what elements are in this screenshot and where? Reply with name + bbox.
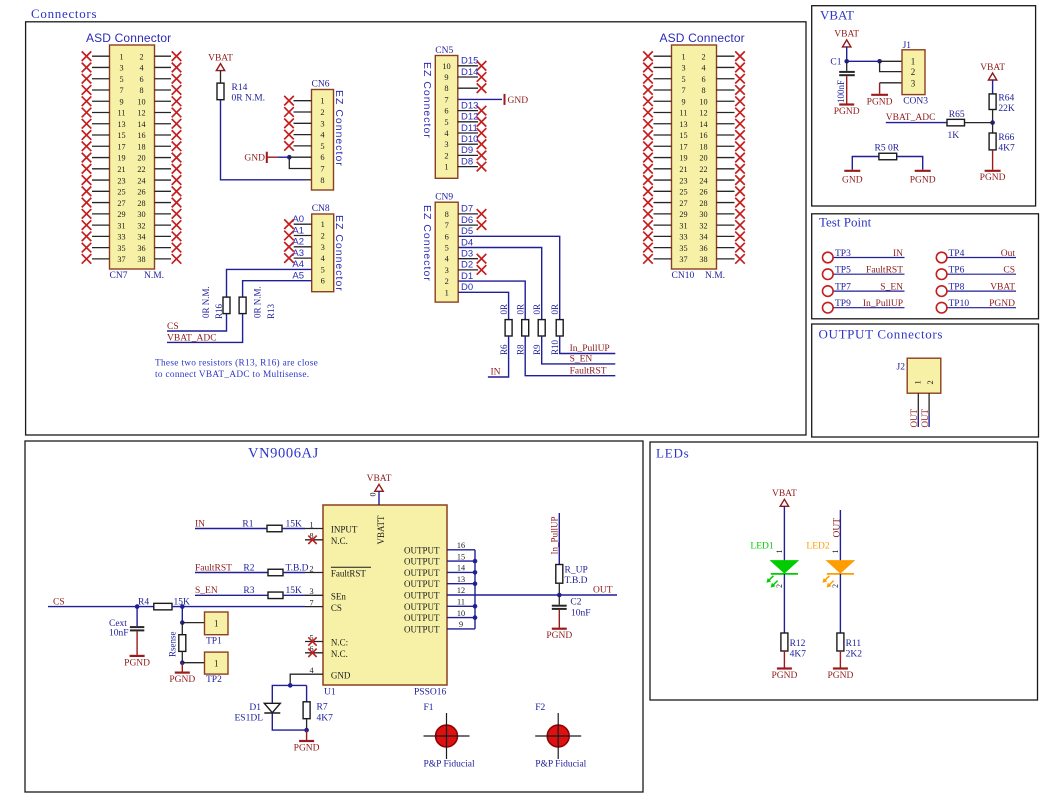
CN7 pin 35 no-connect cross [82, 243, 92, 253]
svg-text:GND: GND [244, 154, 265, 164]
CN10 pin 31 stub [654, 224, 672, 226]
CN10 pin 34 no-connect cross [735, 232, 745, 242]
CN10 pin 30 no-connect cross [735, 209, 745, 219]
CN9 pin 4 stub [458, 258, 478, 260]
svg-text:7: 7 [681, 86, 685, 95]
svg-text:12: 12 [137, 109, 145, 118]
svg-text:EZ Connector: EZ Connector [333, 215, 345, 292]
svg-text:1: 1 [214, 619, 219, 629]
svg-text:1: 1 [309, 520, 313, 529]
CN10 pin 21 no-connect cross [643, 164, 653, 174]
svg-text:PGND: PGND [910, 176, 936, 186]
resistor R64 [989, 94, 996, 110]
CN10 pin 25 no-connect cross [643, 187, 653, 197]
svg-text:1: 1 [775, 550, 784, 554]
svg-text:LED1: LED1 [750, 541, 773, 551]
svg-text:32: 32 [699, 221, 707, 230]
svg-text:1: 1 [911, 56, 916, 66]
svg-text:VBAT: VBAT [208, 53, 233, 63]
U1 pin 6 stub (N.C.) [305, 652, 323, 654]
CN10 pin 24 no-connect cross [735, 175, 745, 185]
CN7 pin 38 stub [155, 258, 172, 260]
svg-text:2: 2 [701, 52, 705, 61]
svg-text:In_PullUP: In_PullUP [570, 344, 610, 354]
svg-text:21: 21 [117, 165, 125, 174]
svg-text:R64: R64 [998, 94, 1014, 104]
U1 pin 7 stub (CS) [305, 606, 323, 608]
CN5 pin 4 no-connect cross [477, 128, 487, 138]
svg-text:PGND: PGND [834, 107, 860, 117]
CN7 pin 26 no-connect cross [172, 187, 182, 197]
CN7 pin 27 no-connect cross [82, 198, 92, 208]
test point TP6 pad circle [936, 269, 947, 280]
wire VBAT to U1 VBATT pin [378, 491, 380, 505]
fiducial F1 mark [436, 725, 458, 747]
svg-text:R3: R3 [243, 586, 254, 596]
svg-text:R_UP: R_UP [565, 566, 588, 576]
test point TP9 pad circle [823, 302, 834, 313]
wire GND node to R7 [290, 684, 306, 686]
wire R16 to CS [167, 314, 227, 331]
svg-text:PGND: PGND [989, 299, 1015, 309]
net stub OUT (LED2) [839, 510, 841, 561]
CN5 pin 9 stub [458, 76, 478, 78]
svg-text:FaultRST: FaultRST [570, 366, 607, 376]
svg-text:D10: D10 [461, 134, 478, 145]
CN10 pin 26 stub [717, 190, 735, 192]
wire FaultRST to R2 [195, 572, 268, 574]
svg-text:33: 33 [117, 233, 125, 242]
CN5 pin 4 stub [458, 132, 478, 134]
svg-text:J2: J2 [897, 363, 906, 373]
CN10 pin 36 stub [717, 247, 735, 249]
svg-text:VBAT_ADC: VBAT_ADC [167, 333, 217, 343]
CN7 pin 5 no-connect cross [82, 74, 92, 84]
CN10 pin 36 no-connect cross [735, 243, 745, 253]
CN10 pin 34 stub [717, 235, 735, 237]
svg-text:D12: D12 [461, 112, 478, 123]
junction at J1 branch [877, 59, 882, 64]
svg-text:R65: R65 [949, 110, 965, 120]
wire GND node to D1 [272, 685, 290, 703]
svg-text:CS: CS [1003, 266, 1015, 276]
CN7 pin 23 stub [92, 179, 110, 181]
CN10 pin 23 no-connect cross [643, 175, 653, 185]
svg-text:11: 11 [680, 109, 688, 118]
svg-text:2: 2 [445, 277, 449, 286]
CN10 pin 27 stub [654, 202, 672, 204]
U1 pin 1 stub (INPUT) [305, 528, 323, 530]
svg-text:IN: IN [893, 249, 903, 259]
svg-text:10: 10 [442, 62, 450, 71]
diode D1 [264, 703, 280, 712]
svg-text:D13: D13 [461, 100, 478, 111]
junction on OUTPUT bus [473, 615, 478, 620]
svg-text:14: 14 [699, 120, 707, 129]
svg-text:OUTPUT: OUTPUT [404, 545, 440, 555]
CN7 pin 3 stub [92, 66, 110, 68]
CN8 pin 3 stub [294, 246, 312, 248]
svg-text:A4: A4 [292, 259, 304, 270]
svg-text:VBATT: VBATT [376, 515, 386, 545]
svg-text:OUT: OUT [920, 409, 930, 428]
svg-text:T.B.D: T.B.D [565, 576, 588, 586]
CN6 pin 6 stub [289, 156, 311, 158]
svg-text:D2: D2 [461, 260, 473, 271]
svg-text:8: 8 [139, 86, 143, 95]
U1 pin 14 stub (OUTPUT) [447, 571, 475, 573]
CN7 pin 32 no-connect cross [172, 220, 182, 230]
svg-text:S_EN: S_EN [880, 282, 903, 292]
CN10 pin 2 stub [717, 55, 735, 57]
U1 pin 5 no-connect cross [308, 637, 316, 645]
svg-text:1: 1 [445, 288, 449, 297]
ground symbol PGND at R5 [915, 170, 931, 172]
svg-text:TP3: TP3 [835, 249, 851, 259]
CN10 pin 32 stub [717, 224, 735, 226]
CN8 pin 4 no-connect cross [284, 253, 294, 263]
svg-text:10nF: 10nF [109, 629, 129, 639]
LED LED1 emission arrows [768, 576, 774, 582]
svg-text:TP9: TP9 [835, 299, 851, 309]
wire OUT node to C2 [558, 595, 560, 605]
ground symbol GND at CN6 [266, 152, 268, 163]
CN10 pin 13 no-connect cross [643, 119, 653, 129]
CN7 pin 22 no-connect cross [172, 164, 182, 174]
svg-text:In_PullUP: In_PullUP [863, 299, 903, 309]
svg-text:13: 13 [117, 120, 125, 129]
ground symbol PGND under R12 [777, 667, 792, 669]
CN10 pin 17 no-connect cross [643, 141, 653, 151]
svg-text:A2: A2 [292, 237, 304, 248]
svg-text:D5: D5 [461, 226, 473, 237]
junction on OUTPUT bus [473, 581, 478, 586]
junction R7/D1 node [304, 728, 309, 733]
section box Connectors [26, 22, 806, 435]
ground symbol PGND under R66 [985, 170, 1001, 172]
svg-text:11: 11 [118, 109, 126, 118]
svg-text:VBAT: VBAT [367, 474, 392, 484]
svg-text:R8: R8 [516, 344, 526, 355]
ground symbol GND at R5 [844, 170, 860, 172]
svg-text:17: 17 [117, 142, 125, 151]
svg-text:2: 2 [309, 564, 313, 573]
svg-text:27: 27 [117, 199, 125, 208]
CN7 pin 2 no-connect cross [172, 51, 182, 61]
svg-text:7: 7 [445, 221, 449, 230]
CN7 pin 6 no-connect cross [172, 74, 182, 84]
test point TP10 pad circle [936, 302, 947, 313]
CN7 pin 3 no-connect cross [82, 63, 92, 73]
svg-text:0R: 0R [499, 304, 509, 315]
junction at OUT node [557, 593, 562, 598]
wire D1 from CN9 pin 2 to R8 [458, 281, 525, 320]
wire IN to R1 [195, 528, 267, 530]
svg-text:2: 2 [925, 380, 935, 384]
svg-text:OUTPUT Connectors: OUTPUT Connectors [819, 327, 944, 342]
svg-text:2: 2 [831, 584, 840, 588]
svg-text:19: 19 [679, 154, 687, 163]
svg-text:8: 8 [444, 84, 448, 93]
svg-text:4: 4 [309, 666, 313, 675]
CN5 pin 1 no-connect cross [477, 162, 487, 172]
U1 pin 2 stub (FaultRST) [305, 572, 323, 574]
CN7 pin 20 stub [155, 157, 172, 159]
CN10 pin 38 no-connect cross [735, 254, 745, 264]
CN8 pin 4 stub [294, 257, 312, 259]
CN5 pin 5 no-connect cross [477, 117, 487, 127]
svg-text:R13: R13 [266, 303, 276, 319]
svg-text:A5: A5 [292, 271, 304, 282]
CN8 pin 2 stub [294, 235, 312, 237]
svg-text:R16: R16 [214, 303, 224, 319]
svg-text:CN9: CN9 [435, 193, 453, 203]
wire R_UP to OUT node [558, 583, 560, 595]
test point TP7 pad circle [823, 286, 834, 297]
svg-text:VBAT: VBAT [820, 7, 854, 22]
CN10 pin 16 stub [717, 134, 735, 136]
resistor R66 [989, 133, 996, 150]
CN10 pin 4 stub [717, 66, 735, 68]
CN10 pin 6 stub [717, 78, 735, 80]
CN7 pin 16 stub [155, 134, 172, 136]
ground symbol PGND under R11 [833, 667, 848, 669]
CN7 pin 37 stub [92, 258, 110, 260]
wire Cext to PGND [136, 631, 138, 655]
svg-text:C2: C2 [570, 598, 581, 608]
section box Test Point [812, 214, 1039, 319]
svg-text:2: 2 [320, 108, 324, 117]
CN10 pin 3 stub [654, 66, 672, 68]
CN10 pin 29 no-connect cross [643, 209, 653, 219]
svg-text:100nF: 100nF [836, 80, 846, 103]
CN10 pin 8 no-connect cross [735, 85, 745, 95]
wire A5 from CN8 pin 6 to R13 [243, 281, 312, 297]
svg-text:5: 5 [444, 118, 448, 127]
CN10 pin 14 no-connect cross [735, 119, 745, 129]
junction on OUTPUT bus [473, 604, 478, 609]
junction at Cext [135, 604, 140, 609]
CN7 pin 4 stub [155, 66, 172, 68]
CN10 pin 14 stub [717, 123, 735, 125]
svg-text:2: 2 [444, 151, 448, 160]
CN7 pin 25 stub [92, 190, 110, 192]
svg-text:4: 4 [139, 64, 143, 73]
connector CN7 body [110, 45, 155, 269]
svg-text:TP6: TP6 [949, 266, 965, 276]
svg-text:37: 37 [679, 255, 687, 264]
svg-text:14: 14 [457, 564, 465, 573]
IC U1 VN9006AJ body [323, 505, 447, 685]
CN7 pin 6 stub [155, 78, 172, 80]
svg-text:D14: D14 [461, 67, 478, 78]
svg-text:5: 5 [119, 75, 123, 84]
ground symbol PGND under C1 [839, 103, 854, 105]
wire R65 to node [965, 122, 993, 124]
svg-text:7: 7 [320, 165, 324, 174]
CN7 pin 35 stub [92, 247, 110, 249]
CN7 pin 31 stub [92, 224, 110, 226]
CN8 pin 1 no-connect cross [284, 219, 294, 229]
wire node to PGND [306, 730, 308, 740]
wire VBAT to R14 [220, 71, 222, 84]
svg-text:28: 28 [699, 199, 707, 208]
svg-text:38: 38 [137, 255, 145, 264]
CN7 pin 21 no-connect cross [82, 164, 92, 174]
wire GND to R5 [852, 157, 879, 170]
CN10 pin 28 stub [717, 202, 735, 204]
svg-text:N.C.: N.C. [331, 536, 348, 546]
connector CN6 body [312, 90, 334, 191]
svg-text:36: 36 [137, 244, 145, 253]
svg-text:PGND: PGND [980, 173, 1006, 183]
svg-text:14: 14 [137, 120, 145, 129]
CN10 pin 32 no-connect cross [735, 220, 745, 230]
test point TP4 wire [942, 257, 1016, 259]
svg-text:23: 23 [679, 176, 687, 185]
junction on OUTPUT bus [473, 559, 478, 564]
CN7 pin 37 no-connect cross [82, 254, 92, 264]
svg-text:R66: R66 [998, 133, 1014, 143]
resistor R14 [217, 83, 224, 100]
CN10 pin 22 no-connect cross [735, 164, 745, 174]
svg-text:PGND: PGND [294, 744, 320, 754]
wire R10 to In_PullUP [560, 336, 616, 354]
CN7 pin 15 stub [92, 134, 110, 136]
svg-text:ASD Connector: ASD Connector [86, 31, 171, 45]
svg-text:8: 8 [445, 210, 449, 219]
CN7 pin 11 no-connect cross [82, 108, 92, 118]
wire to TP1 [182, 622, 204, 624]
svg-text:CON3: CON3 [903, 97, 928, 107]
svg-text:TP2: TP2 [206, 675, 222, 685]
wire R8 to FaultRST [525, 336, 615, 376]
wire D1 to bottom [272, 713, 306, 730]
CN10 pin 17 stub [654, 145, 672, 147]
wire OUTPUT bus [474, 550, 476, 629]
CN5 pin 9 no-connect cross [477, 72, 487, 82]
wire R14 to CN6 pin 8 [221, 100, 306, 180]
svg-text:D7: D7 [461, 204, 473, 215]
resistor R11 [837, 633, 844, 651]
U1 pin 8 stub (N.C.) [305, 539, 323, 541]
capacitor C1 plates [839, 71, 855, 73]
test point TP4 pad circle [936, 252, 947, 263]
CN10 pin 6 no-connect cross [735, 74, 745, 84]
U1 pin 16 stub (OUTPUT) [447, 549, 475, 551]
CN7 pin 24 stub [155, 179, 172, 181]
svg-text:3: 3 [119, 64, 123, 73]
wire R6 to IN [488, 336, 509, 377]
svg-text:A0: A0 [292, 214, 304, 225]
svg-text:PGND: PGND [867, 97, 893, 107]
svg-text:5: 5 [320, 142, 324, 151]
svg-text:24: 24 [699, 176, 707, 185]
svg-text:30: 30 [137, 210, 145, 219]
CN10 pin 33 no-connect cross [643, 232, 653, 242]
CN6 pin 1 no-connect cross [284, 96, 294, 106]
wire C2 to PGND [558, 610, 560, 628]
CN7 pin 36 stub [155, 247, 172, 249]
CN8 pin 1 stub [294, 223, 312, 225]
CN7 pin 19 no-connect cross [82, 153, 92, 163]
wire R66 to PGND [992, 150, 994, 170]
svg-text:10: 10 [457, 609, 465, 618]
CN9 pin 3 stub [458, 269, 478, 271]
wire GND to CN6 junction [267, 156, 278, 158]
svg-text:INPUT: INPUT [331, 525, 358, 535]
svg-text:4K7: 4K7 [790, 650, 807, 660]
CN7 pin 8 stub [155, 89, 172, 91]
svg-text:D4: D4 [461, 237, 473, 248]
section box LEDs [650, 442, 1038, 700]
wire S_EN to R3 [195, 594, 268, 596]
CN7 pin 15 no-connect cross [82, 130, 92, 140]
svg-text:35: 35 [117, 244, 125, 253]
CN7 pin 36 no-connect cross [172, 243, 182, 253]
svg-text:VBAT: VBAT [834, 30, 859, 40]
svg-text:GND: GND [331, 670, 351, 680]
CN9 pin 8 no-connect cross [477, 209, 487, 219]
CN7 pin 23 no-connect cross [82, 175, 92, 185]
wire CS to R4 [48, 606, 154, 608]
svg-text:0R: 0R [550, 304, 560, 315]
svg-text:12: 12 [699, 109, 707, 118]
CN10 pin 24 stub [717, 179, 735, 181]
resistor R16 [223, 297, 230, 314]
wire TP2 tap to PGND [181, 663, 183, 672]
svg-text:OUTPUT: OUTPUT [404, 613, 440, 623]
svg-text:15: 15 [117, 131, 125, 140]
svg-text:1: 1 [912, 380, 922, 384]
CN7 pin 28 stub [155, 202, 172, 204]
svg-text:8: 8 [320, 176, 324, 185]
connector CN9 body [435, 202, 458, 302]
svg-text:R12: R12 [790, 639, 806, 649]
svg-text:FaultRST: FaultRST [331, 569, 367, 579]
U1 pin 15 stub (OUTPUT) [447, 560, 475, 562]
wire node to R66 [992, 123, 994, 133]
svg-text:5: 5 [445, 244, 449, 253]
CN10 pin 7 no-connect cross [643, 85, 653, 95]
CN7 pin 13 no-connect cross [82, 119, 92, 129]
CN10 pin 19 stub [654, 157, 672, 159]
svg-text:1K: 1K [948, 131, 960, 141]
CN7 pin 30 no-connect cross [172, 209, 182, 219]
svg-text:R11: R11 [846, 639, 862, 649]
resistor Rsense [179, 635, 186, 652]
svg-text:PGND: PGND [124, 658, 150, 668]
svg-text:These two resistors (R13, R16): These two resistors (R13, R16) are close [155, 358, 318, 369]
svg-text:2K2: 2K2 [846, 650, 863, 660]
wire R11 to PGND [839, 651, 841, 668]
CN10 pin 5 stub [654, 78, 672, 80]
CN10 pin 9 stub [654, 100, 672, 102]
wire Rsense bottom [181, 651, 183, 662]
test point TP1 body [205, 612, 229, 635]
svg-text:0R: 0R [532, 304, 542, 315]
svg-text:D1: D1 [461, 271, 473, 282]
svg-text:0: 0 [369, 492, 378, 496]
svg-text:CS: CS [331, 603, 342, 613]
svg-text:LEDs: LEDs [656, 446, 690, 461]
CN7 pin 16 no-connect cross [172, 130, 182, 140]
svg-text:3: 3 [320, 119, 324, 128]
test point TP5 pad circle [823, 269, 834, 280]
svg-text:24: 24 [137, 176, 145, 185]
svg-text:F2: F2 [535, 703, 545, 713]
U1 pin 8 no-connect cross [308, 536, 316, 544]
